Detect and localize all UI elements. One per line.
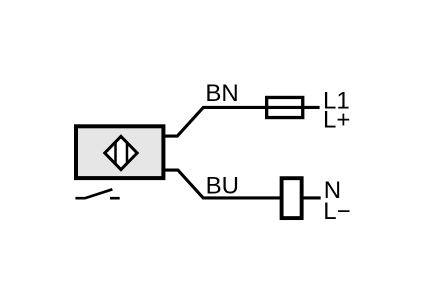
fuse F1 <box>267 97 303 117</box>
sensor symbol left vertical line <box>114 142 117 164</box>
sensor symbol right vertical line <box>126 143 129 164</box>
svg-text:BN: BN <box>205 80 238 107</box>
switch contact (normally open output) <box>75 189 119 198</box>
svg-text:L−: L− <box>323 198 350 225</box>
load <box>282 178 302 218</box>
sensor body (proximity sensor, gray) <box>76 126 163 178</box>
sensor symbol diamond <box>105 136 137 169</box>
svg-text:L+: L+ <box>323 107 350 134</box>
wire BU branch (sensor output to N terminal) <box>164 170 321 198</box>
svg-text:BU: BU <box>206 172 239 199</box>
wire BN branch (sensor output to supply terminal) <box>164 107 320 136</box>
